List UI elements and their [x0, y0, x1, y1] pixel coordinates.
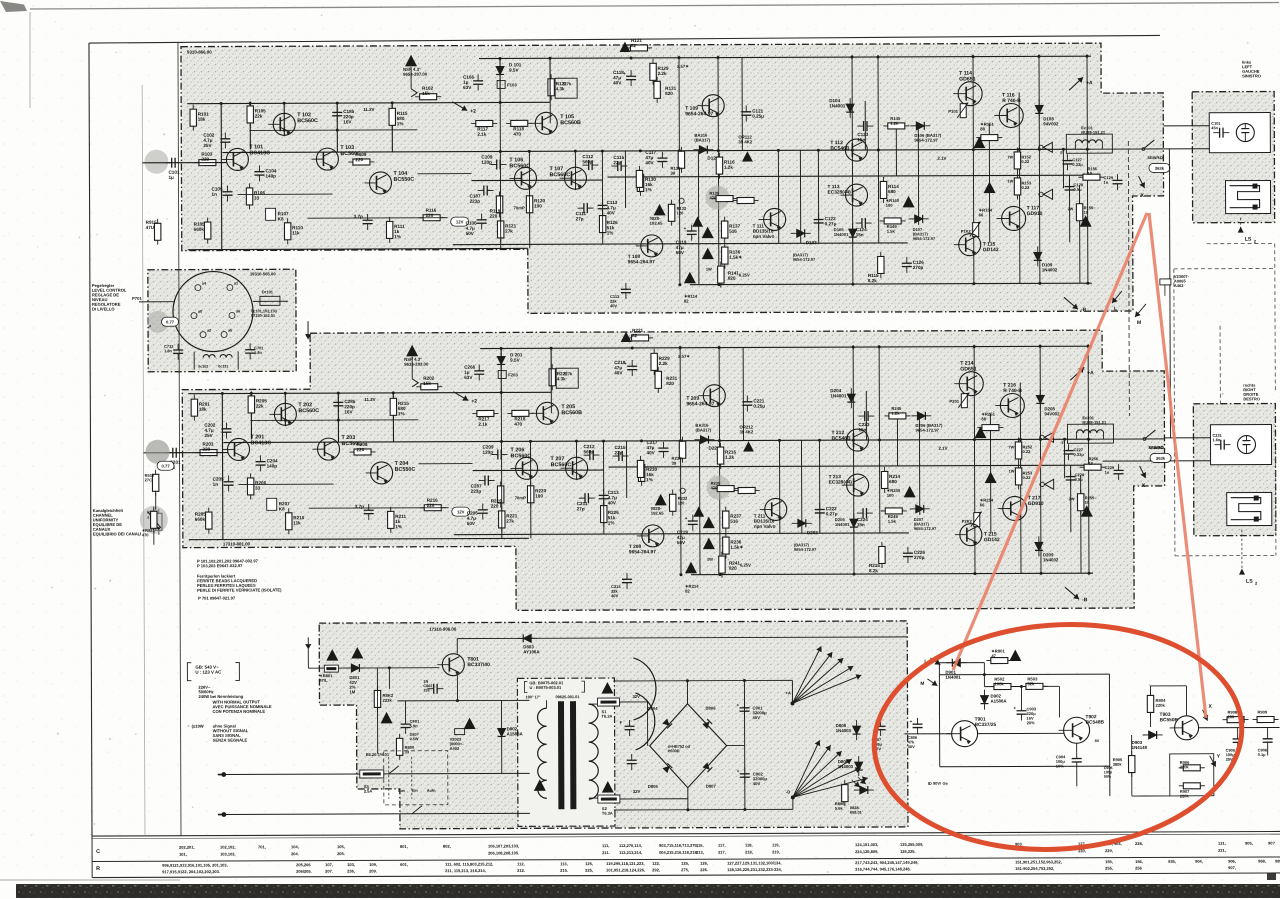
- svg-text:C: C: [96, 849, 100, 855]
- svg-text:+: +: [737, 769, 740, 774]
- svg-text:1W: 1W: [1007, 179, 1013, 183]
- svg-text:M: M: [920, 681, 924, 687]
- svg-text:-B: -B: [1081, 307, 1087, 313]
- svg-text:231,: 231,: [1218, 848, 1226, 853]
- svg-text:113,: 113,: [560, 861, 568, 866]
- svg-text:GB: B0075-002.01U : B0075-00: GB: B0075-002.01U : B0075-003.01: [529, 680, 564, 690]
- svg-text:P101: P101: [948, 109, 958, 114]
- svg-text:904,: 904,: [1195, 859, 1203, 864]
- svg-text:7W: 7W: [1007, 155, 1013, 159]
- svg-text:a0: a0: [198, 310, 202, 314]
- svg-text:0.77: 0.77: [166, 320, 175, 325]
- svg-text:255,: 255,: [1105, 866, 1113, 871]
- svg-text:211, 115,213, 216,214,: 211, 115,213, 216,214,: [445, 868, 486, 873]
- svg-text:124,151,003,: 124,151,003,: [855, 842, 878, 847]
- svg-text:C287223p: C287223p: [471, 484, 482, 494]
- svg-text:Aufn: Aufn: [427, 789, 436, 793]
- svg-text:126,225.: 126,225.: [900, 849, 916, 854]
- svg-text:219,: 219,: [772, 849, 780, 854]
- svg-text:D806: D806: [706, 706, 717, 711]
- svg-text:C204140p: C204140p: [267, 458, 278, 468]
- svg-text:D805: D805: [648, 784, 659, 789]
- svg-text:C212560p: C212560p: [583, 444, 594, 454]
- svg-text:117,: 117,: [718, 843, 726, 848]
- svg-text:X: X: [1141, 193, 1145, 199]
- svg-text:229,: 229,: [1105, 848, 1113, 853]
- svg-text:70mP: 70mP: [515, 495, 526, 500]
- svg-text:C2220.27μ: C2220.27μ: [826, 506, 838, 516]
- svg-text:212.: 212.: [517, 868, 525, 873]
- svg-text:112,270,114,: 112,270,114,: [619, 843, 642, 848]
- svg-text:292,: 292,: [652, 867, 660, 872]
- svg-text:004,215,216,118,218.: 004,215,216,118,218.: [659, 850, 698, 855]
- svg-text:903,715,116,713,275,: 903,715,116,713,275,: [659, 843, 698, 848]
- svg-text:116,: 116,: [696, 843, 704, 848]
- svg-text:P201: P201: [949, 399, 959, 404]
- svg-text:917,915,9122, 204,102,202,20: 917,915,9122, 204,102,202,203.: [162, 869, 220, 874]
- svg-text:218,: 218,: [745, 849, 753, 854]
- svg-text:111, 602, 115,803,215,212,: 111, 602, 115,803,215,212,: [445, 861, 493, 866]
- svg-text:205,206: 205,206: [296, 862, 311, 867]
- svg-text:LS: LS: [1245, 237, 1252, 243]
- svg-text:935,: 935,: [1168, 859, 1176, 864]
- svg-text:R906220k: R906220k: [1180, 760, 1190, 770]
- svg-text:SBW/kΩ: SBW/kΩ: [1147, 155, 1162, 160]
- svg-text:190° 17°: 190° 17°: [525, 694, 540, 699]
- svg-text:-D: -D: [786, 789, 790, 794]
- svg-text:D103: D103: [806, 240, 817, 245]
- svg-text:111,: 111,: [602, 843, 609, 848]
- svg-text:OR21239 4K2: OR21239 4K2: [739, 424, 754, 434]
- svg-text:5.7k: 5.7k: [564, 371, 573, 376]
- svg-text:2.1V: 2.1V: [939, 446, 948, 451]
- svg-text:P701: P701: [132, 296, 142, 301]
- svg-text:+: +: [1014, 705, 1017, 710]
- svg-text:0c101,102,10307230-152.01: 0c101,102,10307230-152.01: [251, 308, 278, 318]
- svg-text:0c102: 0c102: [198, 365, 208, 369]
- svg-text:+: +: [910, 719, 913, 724]
- svg-text:D203: D203: [807, 530, 818, 535]
- svg-text:L: L: [1114, 306, 1117, 312]
- svg-text:209.: 209.: [369, 868, 377, 873]
- svg-text:Aus: Aus: [398, 789, 405, 793]
- svg-text:202,201,: 202,201,: [179, 845, 195, 850]
- svg-text:B6.20-1%.01: B6.20-1%.01: [366, 752, 390, 757]
- svg-text:256: 256: [1135, 865, 1142, 870]
- svg-text:a6: a6: [236, 309, 240, 313]
- svg-text:P2K2: P2K2: [962, 519, 973, 524]
- svg-text:103,: 103,: [347, 862, 355, 867]
- svg-text:C1210.25μ: C1210.25μ: [752, 108, 764, 118]
- svg-text:17310-906.00: 17310-906.00: [429, 627, 457, 632]
- svg-text:236,: 236,: [347, 869, 355, 874]
- svg-text:11.2V: 11.2V: [364, 397, 375, 402]
- svg-text:2.1V: 2.1V: [937, 156, 946, 161]
- svg-text:118,: 118,: [745, 842, 753, 847]
- svg-text:Dr101: Dr101: [262, 289, 274, 294]
- svg-text:P1K2: P1K2: [961, 229, 972, 234]
- svg-text:+A: +A: [1086, 80, 1093, 86]
- svg-text:126,: 126,: [700, 861, 708, 866]
- svg-text:D206 (BA317)9654-172.97: D206 (BA317)9654-172.97: [915, 423, 943, 433]
- svg-text:204.: 204.: [291, 851, 299, 856]
- svg-text:213,: 213,: [696, 850, 704, 855]
- svg-text:D80?0.5W: D80?0.5W: [410, 733, 420, 741]
- svg-text:363k: 363k: [1156, 456, 1166, 461]
- svg-text:a5: a5: [228, 328, 232, 332]
- svg-text:7W: 7W: [1009, 445, 1015, 449]
- svg-text:X: X: [1142, 483, 1146, 489]
- svg-text:D807: D807: [706, 784, 717, 789]
- svg-text:106,107,203,103,: 106,107,203,103,: [488, 843, 519, 848]
- svg-text:OR11239 4K2: OR11239 4K2: [738, 134, 753, 144]
- svg-text:5.7k: 5.7k: [563, 81, 572, 86]
- svg-text:907,: 907,: [1228, 865, 1236, 870]
- svg-text:905,: 905,: [1245, 841, 1253, 846]
- svg-text:125,255,009,: 125,255,009,: [900, 842, 923, 847]
- svg-text:LS: LS: [1246, 579, 1253, 585]
- svg-text:104,: 104,: [291, 844, 299, 849]
- svg-text:119,295,118,121,223,: 119,295,118,121,223,: [606, 861, 645, 866]
- svg-text:90?: 90?: [1268, 840, 1275, 845]
- svg-text:8V: 8V: [1095, 739, 1100, 743]
- svg-text:801,: 801,: [400, 844, 408, 849]
- svg-text:155,: 155,: [1105, 859, 1113, 864]
- svg-text:9310-866.00: 9310-866.00: [187, 50, 212, 55]
- svg-text:R909: R909: [1258, 710, 1268, 715]
- svg-text:125,: 125,: [681, 861, 689, 866]
- svg-text:C126270p: C126270p: [913, 260, 924, 270]
- svg-text:217,: 217,: [718, 850, 726, 855]
- svg-text:127,227,129,131,132,100/134,: 127,227,129,131,132,100/134,: [727, 860, 782, 865]
- svg-text:M: M: [1137, 320, 1141, 326]
- svg-text:C2210.25μ: C2210.25μ: [753, 398, 765, 408]
- svg-text:6.25V: 6.25V: [739, 273, 750, 278]
- svg-text:↗: ↗: [148, 324, 151, 329]
- svg-text:1W: 1W: [706, 267, 712, 272]
- svg-text:C209120p: C209120p: [482, 444, 493, 454]
- svg-text:70mP: 70mP: [514, 205, 525, 210]
- svg-text:205.: 205.: [337, 851, 345, 856]
- svg-text:151-902,254,753,252,: 151-902,254,753,252,: [1015, 866, 1054, 871]
- svg-text:207.: 207.: [325, 869, 333, 874]
- svg-text:275,: 275,: [681, 867, 689, 872]
- svg-text:215.: 215.: [560, 868, 568, 873]
- svg-text:C104140p: C104140p: [265, 168, 276, 178]
- svg-text:112,: 112,: [517, 861, 525, 866]
- svg-text:C1220.27μ: C1220.27μ: [825, 216, 837, 226]
- svg-text:Ein: Ein: [412, 789, 419, 793]
- svg-text:1W: 1W: [1009, 469, 1015, 473]
- svg-text:996,9121,913,916,101,105, 201,: 996,9121,913,916,101,105, 201,103,: [162, 863, 228, 868]
- svg-text:906,: 906,: [1228, 859, 1236, 864]
- svg-text:ID 90V! Ge: ID 90V! Ge: [928, 781, 949, 786]
- svg-text:1W: 1W: [707, 557, 713, 562]
- svg-text:105,: 105,: [337, 844, 345, 849]
- svg-text:C1270.33μ: C1270.33μ: [1072, 157, 1083, 167]
- svg-text:156,: 156,: [1135, 859, 1143, 864]
- svg-text:(≤19W: (≤19W: [192, 724, 204, 729]
- svg-text:F103: F103: [507, 82, 517, 87]
- svg-text:09625-001.01: 09625-001.01: [555, 694, 580, 699]
- svg-text:226.: 226.: [700, 867, 708, 872]
- svg-text:701,: 701,: [258, 844, 266, 849]
- svg-text:+2: +2: [471, 399, 477, 405]
- svg-text:217,743,243, 904,245,147,149,2: 217,743,243, 904,245,147,149,249,: [855, 860, 918, 865]
- svg-text:151,901,251,152,963,252,: 151,901,251,152,963,252,: [1015, 859, 1062, 864]
- svg-text:D804: D804: [648, 706, 659, 711]
- svg-text:101,: 101,: [179, 852, 187, 857]
- svg-text:R905380k: R905380k: [1113, 757, 1123, 767]
- svg-text:12V: 12V: [457, 509, 465, 514]
- svg-text:+A: +A: [785, 690, 791, 695]
- svg-text:+: +: [736, 703, 739, 708]
- svg-text:17310-881.00: 17310-881.00: [223, 541, 251, 546]
- svg-text:316,744,744, 945,176,148,248.: 316,744,744, 945,176,148,248.: [855, 866, 911, 871]
- svg-text:C226270p: C226270p: [914, 550, 925, 560]
- svg-text:D106 (BA317)9654-172.97: D106 (BA317)9654-172.97: [914, 133, 942, 143]
- svg-text:101,951,218,124,226,: 101,951,218,124,226,: [606, 867, 645, 872]
- svg-text:225,: 225,: [585, 868, 593, 873]
- svg-text:GB: 543 V~U : 123 V AC: GB: 543 V~U : 123 V AC: [195, 665, 222, 675]
- svg-text:2W: 2W: [1069, 497, 1075, 501]
- svg-text:125,: 125,: [585, 861, 593, 866]
- svg-text:0c131: 0c131: [218, 365, 228, 369]
- svg-text:102,102,: 102,102,: [220, 844, 236, 849]
- svg-text:32V: 32V: [632, 694, 640, 699]
- svg-text:P 701 09647-021.97: P 701 09647-021.97: [198, 595, 236, 600]
- svg-text:11.2V: 11.2V: [363, 107, 374, 112]
- svg-text:128,126,229,231,232,233-234,: 128,126,229,231,232,233-234,: [727, 867, 782, 872]
- svg-text:32V: 32V: [633, 789, 641, 794]
- svg-text:206,108,208,105.: 206,108,208,105.: [488, 850, 519, 855]
- svg-text:109,: 109,: [369, 862, 377, 867]
- svg-text:224,125,809,: 224,125,809,: [855, 849, 878, 854]
- svg-text:R907220k: R907220k: [1180, 789, 1190, 799]
- svg-text:119,: 119,: [772, 842, 780, 847]
- svg-text:989,: 989,: [1275, 858, 1280, 863]
- svg-text:+: +: [684, 226, 687, 231]
- svg-text:C2270.33μ: C2270.33μ: [1074, 447, 1085, 457]
- svg-text:+A: +A: [1087, 370, 1094, 376]
- svg-text:SENS/Ω: SENS/Ω: [1149, 445, 1164, 450]
- svg-text:228,: 228,: [1135, 841, 1143, 846]
- svg-text:19310-565.00: 19310-565.00: [250, 271, 277, 276]
- svg-text:C109120p: C109120p: [481, 154, 492, 164]
- svg-text:113,213,214,: 113,213,214,: [619, 850, 642, 855]
- svg-text:2W: 2W: [1068, 207, 1074, 211]
- svg-text:R185660k: R185660k: [194, 222, 205, 232]
- svg-text:0.77: 0.77: [161, 464, 170, 469]
- svg-text:107,: 107,: [325, 862, 333, 867]
- svg-text:a2: a2: [207, 329, 211, 333]
- svg-text:R502100k: R502100k: [994, 677, 1005, 687]
- svg-text:C187223p: C187223p: [470, 194, 481, 204]
- svg-text:131,: 131,: [1218, 841, 1226, 846]
- svg-text:F203: F203: [508, 372, 518, 377]
- svg-text:363k: 363k: [1155, 166, 1165, 171]
- svg-text:+2: +2: [470, 109, 476, 115]
- svg-text:802,: 802,: [443, 844, 451, 849]
- svg-text:R: R: [96, 866, 100, 872]
- svg-text:103,103.: 103,103.: [220, 851, 236, 856]
- svg-text:968,: 968,: [1258, 859, 1266, 864]
- svg-text:6.25V: 6.25V: [740, 562, 751, 567]
- svg-text:a1: a1: [234, 281, 238, 285]
- svg-text:601,: 601,: [400, 862, 408, 867]
- svg-text:R904220k: R904220k: [1155, 698, 1166, 708]
- svg-text:12V: 12V: [456, 219, 464, 224]
- svg-text:122,: 122,: [652, 861, 660, 866]
- svg-text:R285660k: R285660k: [195, 512, 206, 522]
- svg-text:C112560p: C112560p: [582, 154, 593, 164]
- svg-text:+: +: [685, 516, 688, 521]
- svg-text:211.: 211.: [602, 850, 610, 855]
- svg-text:-B: -B: [1082, 597, 1088, 603]
- svg-text:206/205.: 206/205.: [296, 869, 312, 874]
